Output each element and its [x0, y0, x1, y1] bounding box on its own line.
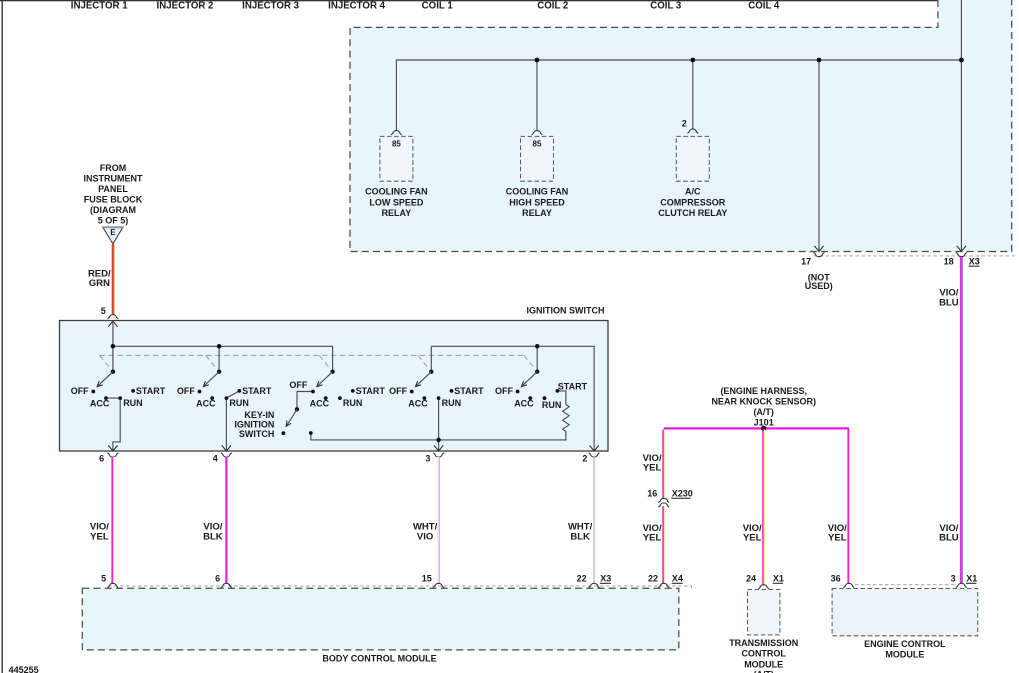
svg-text:X230: X230 — [672, 489, 693, 499]
svg-text:X4: X4 — [672, 574, 683, 584]
svg-text:2: 2 — [682, 118, 687, 128]
svg-text:START: START — [242, 386, 272, 396]
svg-text:KEY-IN: KEY-IN — [244, 410, 274, 420]
svg-text:6: 6 — [215, 574, 220, 584]
svg-text:BLU: BLU — [939, 533, 959, 544]
svg-text:INJECTOR 2: INJECTOR 2 — [157, 0, 214, 11]
svg-text:BLU: BLU — [939, 297, 959, 308]
svg-text:START: START — [356, 386, 386, 396]
svg-text:X3: X3 — [969, 257, 980, 267]
svg-text:RUN: RUN — [343, 398, 363, 408]
svg-text:6: 6 — [99, 453, 104, 463]
svg-text:COOLING FAN: COOLING FAN — [506, 187, 569, 197]
svg-text:3: 3 — [951, 574, 956, 584]
svg-text:RELAY: RELAY — [382, 208, 412, 218]
svg-text:OFF: OFF — [495, 386, 513, 396]
svg-text:COIL 2: COIL 2 — [537, 0, 568, 11]
svg-text:FROM: FROM — [100, 163, 127, 173]
svg-text:CONTROL: CONTROL — [741, 649, 786, 659]
svg-text:85: 85 — [533, 139, 542, 148]
svg-text:START: START — [558, 381, 588, 391]
svg-text:LOW SPEED: LOW SPEED — [369, 197, 424, 207]
svg-text:MODULE: MODULE — [885, 650, 924, 660]
svg-text:RUN: RUN — [542, 400, 562, 410]
svg-text:5: 5 — [101, 574, 106, 584]
svg-text:FUSE BLOCK: FUSE BLOCK — [84, 195, 143, 205]
svg-text:17: 17 — [801, 257, 811, 267]
svg-text:A/C: A/C — [685, 187, 701, 197]
svg-text:USED): USED) — [805, 281, 833, 291]
svg-text:INSTRUMENT: INSTRUMENT — [84, 174, 143, 184]
svg-text:INJECTOR 1: INJECTOR 1 — [71, 0, 128, 11]
svg-text:IGNITION SWITCH: IGNITION SWITCH — [527, 306, 605, 316]
svg-text:5: 5 — [101, 306, 106, 316]
svg-text:BLK: BLK — [203, 531, 223, 542]
svg-text:ACC: ACC — [514, 398, 534, 408]
svg-text:YEL: YEL — [828, 533, 847, 544]
svg-text:OFF: OFF — [289, 380, 307, 390]
svg-text:ENGINE CONTROL: ENGINE CONTROL — [864, 639, 946, 649]
svg-text:COIL 1: COIL 1 — [422, 0, 454, 11]
svg-text:36: 36 — [831, 574, 841, 584]
svg-text:RELAY: RELAY — [522, 208, 552, 218]
svg-text:YEL: YEL — [643, 463, 662, 474]
svg-text:E: E — [110, 228, 116, 237]
svg-text:ACC: ACC — [408, 398, 428, 408]
svg-text:ACC: ACC — [310, 398, 330, 408]
svg-text:OFF: OFF — [177, 386, 195, 396]
svg-text:(ENGINE HARNESS,: (ENGINE HARNESS, — [720, 386, 807, 396]
svg-text:RUN: RUN — [123, 398, 143, 408]
svg-text:INJECTOR 3: INJECTOR 3 — [242, 0, 299, 11]
svg-text:ACC: ACC — [196, 398, 216, 408]
svg-text:(A/T): (A/T) — [753, 407, 774, 417]
svg-text:COIL 3: COIL 3 — [650, 0, 682, 11]
svg-text:OFF: OFF — [71, 386, 89, 396]
svg-text:24: 24 — [746, 574, 756, 584]
svg-text:START: START — [136, 386, 166, 396]
svg-text:START: START — [454, 386, 484, 396]
svg-text:SWITCH: SWITCH — [239, 429, 275, 439]
svg-text:COOLING FAN: COOLING FAN — [365, 187, 428, 197]
svg-text:X3: X3 — [600, 574, 611, 584]
svg-text:ACC: ACC — [90, 398, 110, 408]
svg-text:(DIAGRAM: (DIAGRAM — [90, 205, 136, 215]
svg-text:INJECTOR 4: INJECTOR 4 — [328, 0, 385, 11]
svg-text:NEAR KNOCK SENSOR): NEAR KNOCK SENSOR) — [711, 396, 816, 406]
svg-text:RUN: RUN — [442, 398, 462, 408]
svg-text:16: 16 — [647, 489, 657, 499]
svg-text:18: 18 — [944, 257, 954, 267]
svg-text:TRANSMISSION: TRANSMISSION — [729, 638, 798, 648]
svg-text:3: 3 — [425, 453, 430, 463]
svg-text:X1: X1 — [773, 574, 784, 584]
svg-text:OFF: OFF — [389, 386, 407, 396]
svg-text:YEL: YEL — [90, 531, 109, 542]
svg-text:HIGH SPEED: HIGH SPEED — [509, 197, 565, 207]
svg-text:15: 15 — [422, 574, 432, 584]
svg-text:445255: 445255 — [9, 665, 39, 673]
svg-text:YEL: YEL — [643, 533, 662, 544]
svg-text:BLK: BLK — [570, 531, 590, 542]
svg-text:4: 4 — [213, 453, 218, 463]
svg-text:IGNITION: IGNITION — [234, 420, 274, 430]
svg-text:MODULE: MODULE — [744, 660, 783, 670]
svg-text:RUN: RUN — [229, 398, 249, 408]
svg-text:22: 22 — [577, 574, 587, 584]
svg-text:CLUTCH RELAY: CLUTCH RELAY — [658, 208, 727, 218]
svg-text:YEL: YEL — [743, 533, 762, 544]
svg-text:5 OF 5): 5 OF 5) — [98, 216, 129, 226]
svg-text:85: 85 — [392, 139, 401, 148]
svg-text:X1: X1 — [966, 574, 977, 584]
svg-text:22: 22 — [648, 574, 658, 584]
svg-text:2: 2 — [582, 453, 587, 463]
svg-text:COMPRESSOR: COMPRESSOR — [660, 197, 726, 207]
svg-text:BODY CONTROL MODULE: BODY CONTROL MODULE — [322, 653, 436, 663]
svg-text:GRN: GRN — [89, 278, 110, 289]
svg-text:COIL 4: COIL 4 — [748, 0, 780, 11]
svg-text:PANEL: PANEL — [98, 184, 128, 194]
svg-text:VIO: VIO — [417, 531, 433, 542]
